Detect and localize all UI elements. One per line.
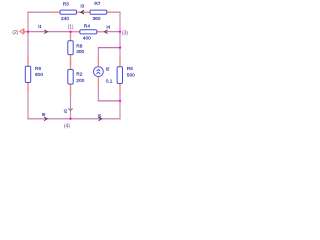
wire left column <box>27 32 29 120</box>
wire top bus <box>27 12 29 32</box>
current source I5 <box>94 67 104 77</box>
junction node 1 <box>69 31 71 33</box>
junction node 2 <box>27 31 29 33</box>
resistor R2 <box>68 70 73 85</box>
resistor R3 leads <box>50 11 60 13</box>
junction node 3 <box>119 31 121 33</box>
resistor R6 <box>25 66 30 82</box>
svg-text:(1): (1) <box>68 25 74 31</box>
svg-text:240: 240 <box>61 16 69 22</box>
resistor R5 leads <box>119 56 121 67</box>
wire bottom bus <box>27 118 120 120</box>
resistor R4 <box>80 30 97 34</box>
current arrow I1 <box>44 30 47 34</box>
port arrow at node 2 <box>24 31 28 33</box>
junction source bottom <box>119 100 121 102</box>
wire row2 <box>28 31 120 33</box>
current arrow I2 <box>68 109 72 111</box>
svg-text:600: 600 <box>35 72 43 78</box>
svg-text:(4): (4) <box>64 124 70 130</box>
svg-text:R3: R3 <box>63 2 69 8</box>
resistor R8 <box>68 41 73 55</box>
current arrow I5 bottom <box>99 117 102 121</box>
wire source branch top <box>97 47 99 66</box>
resistor R8 leads <box>70 32 72 41</box>
wire right column <box>119 32 121 120</box>
resistor R7 <box>90 10 107 14</box>
current arrow I3 <box>81 10 84 14</box>
svg-text:(2): (2) <box>12 30 18 36</box>
svg-text:200: 200 <box>76 78 84 84</box>
resistor R2 leads <box>70 60 72 70</box>
current arrow I4 <box>105 30 108 34</box>
resistor R6 leads <box>27 56 29 67</box>
svg-text:R8: R8 <box>76 43 82 49</box>
svg-text:0.1: 0.1 <box>106 78 113 84</box>
svg-text:R5: R5 <box>127 66 133 72</box>
svg-text:R6: R6 <box>35 66 41 72</box>
svg-text:300: 300 <box>76 49 84 55</box>
svg-text:R7: R7 <box>94 1 100 7</box>
svg-text:R2: R2 <box>76 71 82 77</box>
svg-text:400: 400 <box>83 36 91 42</box>
current source I5 leads <box>97 57 99 67</box>
resistor R3 <box>60 10 77 14</box>
junction source top <box>119 46 121 48</box>
current arrow I6 <box>44 117 47 121</box>
wire middle column <box>70 32 72 119</box>
wire source branch bottom <box>97 77 99 102</box>
resistor R5 <box>117 67 122 84</box>
junction node 4 <box>69 118 71 120</box>
resistor R7 leads <box>80 11 90 13</box>
resistor R4 leads <box>71 31 81 33</box>
svg-text:(3): (3) <box>122 30 128 36</box>
svg-text:360: 360 <box>92 16 100 22</box>
svg-text:500: 500 <box>127 72 135 78</box>
svg-text:R4: R4 <box>84 24 90 30</box>
